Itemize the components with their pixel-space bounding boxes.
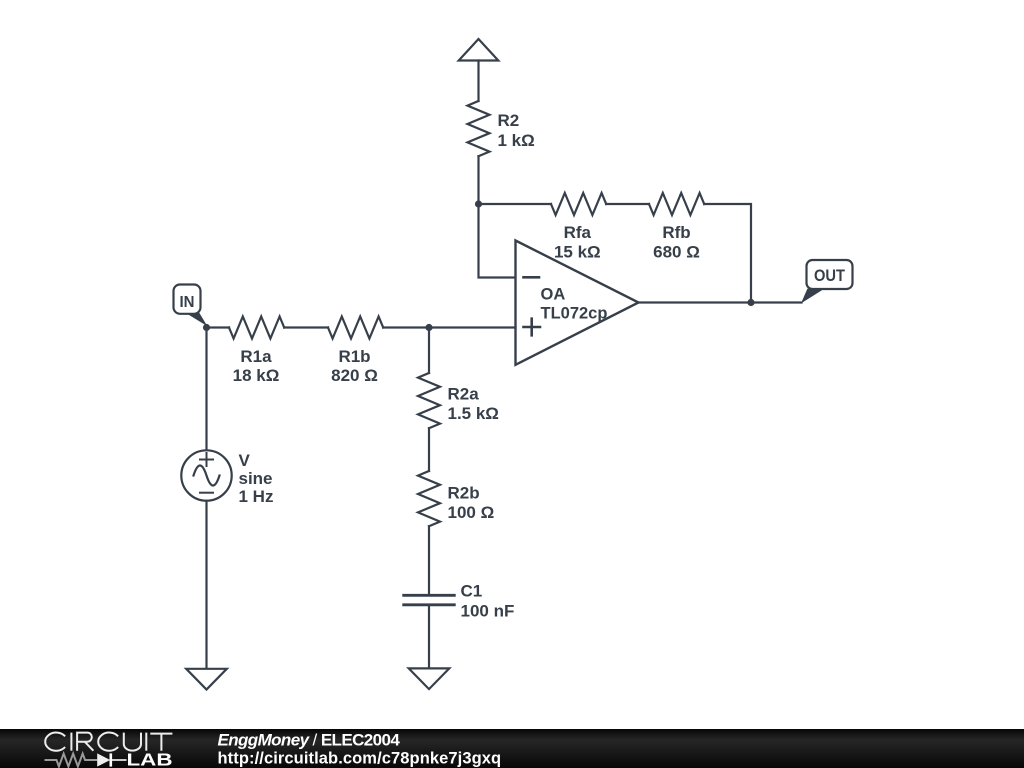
label V1 value — [239, 451, 274, 506]
wire R2a to R2b — [428, 428, 430, 471]
svg-text:R2a: R2a — [448, 385, 480, 404]
voltage source V1 — [181, 450, 231, 500]
svg-text:1 Hz: 1 Hz — [239, 487, 274, 506]
label R1a value — [233, 347, 280, 385]
svg-text:IN: IN — [180, 294, 195, 311]
wire Rfa to Rfb — [606, 203, 649, 205]
svg-text:C1: C1 — [461, 582, 483, 601]
flag OUT — [801, 289, 825, 304]
svg-text:LAB: LAB — [127, 750, 173, 768]
svg-text:15 kΩ: 15 kΩ — [554, 243, 601, 262]
flag IN — [185, 311, 208, 326]
svg-text:100 nF: 100 nF — [461, 602, 515, 621]
svg-text:R2: R2 — [498, 111, 520, 130]
label R2 value — [498, 111, 535, 150]
svg-text:Rfb: Rfb — [662, 223, 690, 242]
node OUT junction — [747, 299, 754, 306]
label Rfb value — [653, 223, 700, 262]
svg-text:http://circuitlab.com/c78pnke7: http://circuitlab.com/c78pnke7j3gxq — [218, 750, 502, 768]
power flag V+ — [459, 39, 499, 61]
wire node A down to inverting input — [479, 204, 516, 278]
wire C1 to ground — [428, 605, 430, 669]
op-amp minus sign — [524, 276, 540, 279]
resistor R2 — [468, 101, 490, 156]
resistor R2a — [418, 373, 440, 428]
wire R2b to C1 — [428, 526, 430, 595]
wire R2 to node A — [477, 156, 479, 204]
capacitor C1 — [404, 595, 455, 605]
ground G2 — [409, 668, 450, 689]
wire node B down to R2a — [428, 328, 430, 374]
wire Rfb to output node — [704, 204, 751, 303]
label Rfa value — [554, 223, 601, 262]
svg-text:18 kΩ: 18 kΩ — [233, 366, 280, 385]
wire power flag to R2 — [477, 61, 479, 102]
wire V1 to ground — [205, 501, 207, 669]
svg-text:1.5 kΩ: 1.5 kΩ — [448, 404, 499, 423]
resistor Rfb — [649, 193, 704, 215]
svg-text:820 Ω: 820 Ω — [331, 366, 378, 385]
ground G1 — [186, 669, 227, 690]
node IN junction — [203, 324, 210, 331]
wire IN node down to V1 — [205, 328, 207, 451]
wire R1b to noninverting input — [383, 326, 515, 328]
svg-text:680 Ω: 680 Ω — [653, 243, 700, 262]
svg-text:100 Ω: 100 Ω — [448, 503, 495, 522]
svg-text:OUT: OUT — [814, 267, 845, 285]
svg-text:Rfa: Rfa — [564, 223, 592, 242]
svg-text:OA: OA — [541, 286, 566, 304]
label R2a value — [448, 385, 499, 424]
resistor R1b — [328, 317, 383, 339]
svg-text:V: V — [239, 451, 251, 470]
resistor R1a — [229, 317, 284, 339]
wire IN node to R1a — [207, 326, 230, 328]
svg-text:EnggMoney / ELEC2004: EnggMoney / ELEC2004 — [218, 731, 401, 750]
logo CIRCUIT wordmark — [45, 733, 172, 751]
svg-text:sine: sine — [239, 469, 273, 488]
wire R1a to R1b — [284, 326, 328, 328]
svg-text:R1b: R1b — [338, 347, 370, 366]
node A junction R2/feedback — [475, 200, 482, 207]
svg-text:TL072cp: TL072cp — [541, 305, 608, 323]
resistor R2b — [418, 471, 440, 526]
label R2b value — [448, 484, 495, 523]
op-amp U1 — [516, 241, 639, 365]
wire op-amp output — [639, 301, 802, 303]
label op-amp name — [541, 286, 608, 323]
logo resistor-diode glyph — [45, 754, 127, 767]
svg-text:1 kΩ: 1 kΩ — [498, 131, 535, 150]
svg-text:R1a: R1a — [240, 347, 272, 366]
resistor Rfa — [551, 193, 606, 215]
label C1 value — [461, 582, 515, 621]
svg-text:R2b: R2b — [448, 484, 480, 503]
node B junction R1b/R2a — [425, 324, 432, 331]
wire node A to Rfa — [479, 203, 552, 205]
op-amp plus sign — [524, 319, 541, 336]
label R1b value — [331, 347, 378, 385]
